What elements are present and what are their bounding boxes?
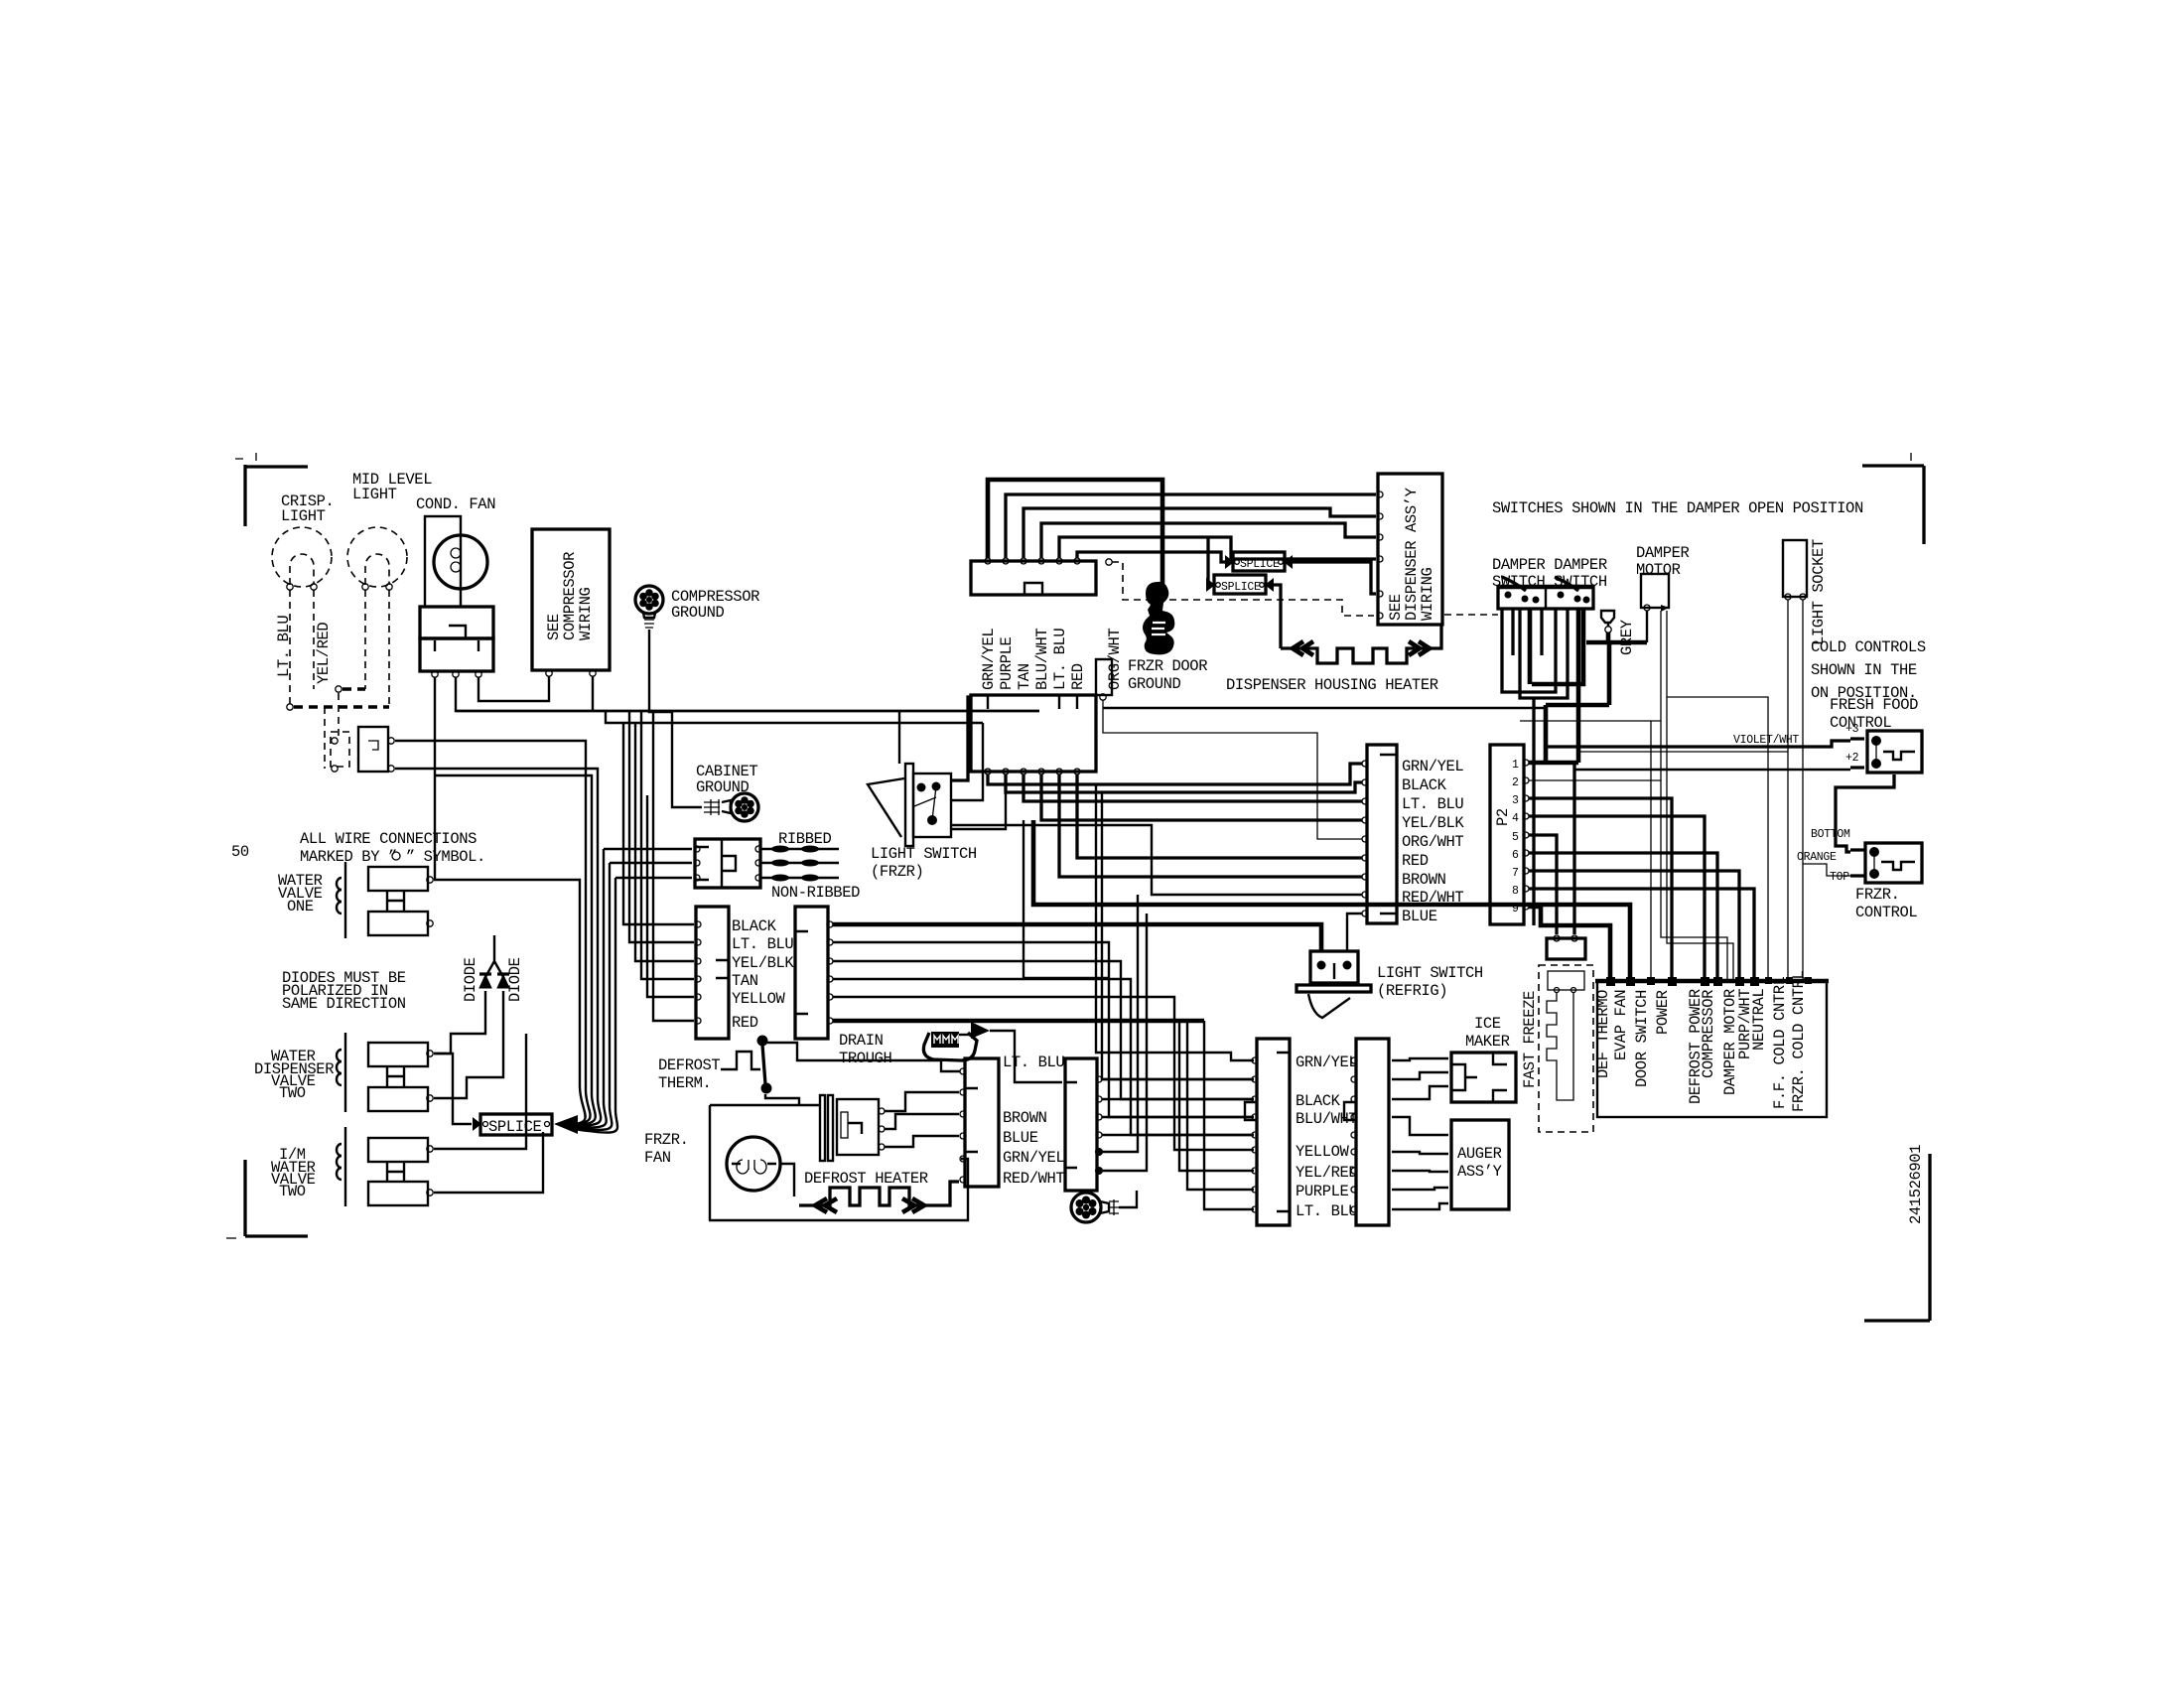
connector ribbed/non-ribbed [695, 839, 760, 888]
svg-text:SPLICE: SPLICE [1240, 558, 1280, 571]
svg-text:LT. BLU: LT. BLU [1296, 1202, 1357, 1220]
svg-text:GRN/YEL: GRN/YEL [1003, 1149, 1064, 1167]
svg-text:THERM.: THERM. [658, 1074, 711, 1092]
wire yel/blk to C [1041, 774, 1362, 820]
svg-text:FAN: FAN [644, 1149, 671, 1167]
wire evap fan long [1033, 820, 1630, 978]
svg-text:DAMPER: DAMPER [1636, 544, 1690, 562]
svg-text:SHOWN IN THE: SHOWN IN THE [1811, 661, 1917, 679]
terminal board [1597, 981, 1827, 1117]
svg-text:(REFRIG): (REFRIG) [1377, 982, 1447, 1000]
svg-text:LT. BLU: LT. BLU [1003, 1054, 1064, 1071]
wire switch frzr upper contact right [951, 697, 970, 780]
ice maker box [1451, 1053, 1516, 1102]
door connector lower [971, 695, 1096, 772]
auger assy box [1451, 1120, 1509, 1209]
svg-text:RED: RED [1402, 852, 1429, 870]
light switch refrig symbol [1310, 951, 1358, 983]
svg-text:GROUND: GROUND [671, 604, 725, 622]
dashed door outline [1112, 562, 1498, 616]
wire drop to D purple [1187, 1021, 1254, 1190]
wire mid lamp left [364, 590, 366, 689]
svg-text:LT. BLU: LT. BLU [275, 616, 293, 677]
wire to ff control +2 [1574, 769, 1850, 771]
svg-text:RED: RED [1069, 663, 1087, 690]
svg-text:1: 1 [1512, 759, 1519, 772]
svg-text:SWITCHES SHOWN IN THE DAMPER O: SWITCHES SHOWN IN THE DAMPER OPEN POSITI… [1492, 499, 1863, 517]
svg-text:DAMPER DAMPER: DAMPER DAMPER [1492, 556, 1607, 574]
svg-text:YEL/BLK: YEL/BLK [732, 954, 794, 972]
svg-text:WIRING: WIRING [577, 587, 595, 640]
wire neutral thin [1667, 697, 1768, 981]
connector C body [1367, 745, 1397, 923]
lamp crisp light [272, 527, 332, 587]
svg-text:9: 9 [1512, 903, 1519, 915]
wire thin long to damper pair [1650, 721, 1652, 978]
svg-text:TROUGH: TROUGH [839, 1050, 892, 1067]
svg-text:241526901: 241526901 [1907, 1145, 1925, 1224]
svg-text:COND. FAN: COND. FAN [416, 495, 495, 513]
wire mid lamp right [388, 590, 390, 707]
svg-text:LIGHT SOCKET: LIGHT SOCKET [1810, 539, 1828, 645]
svg-text:DISPENSER HOUSING HEATER: DISPENSER HOUSING HEATER [1226, 676, 1438, 694]
wire compressor T2 [592, 676, 594, 711]
svg-text:50: 50 [231, 843, 249, 861]
connector column right [795, 907, 828, 1039]
fast freeze connector box [1547, 938, 1585, 959]
svg-text:FRESH FOOD: FRESH FOOD [1830, 696, 1918, 714]
wire drop to D pin2 [1102, 792, 1254, 1079]
wire damper motor thin pair [1661, 611, 1733, 981]
wire p9 [1529, 907, 1610, 981]
svg-text:SPLICE: SPLICE [488, 1118, 542, 1136]
wire orange [1803, 864, 1850, 876]
svg-text:DEFROST HEATER: DEFROST HEATER [804, 1170, 928, 1188]
wire drop long left [1024, 820, 1109, 978]
svg-text:YEL/BLK: YEL/BLK [1402, 814, 1464, 832]
svg-text:VIOLET/WHT: VIOLET/WHT [1733, 734, 1799, 747]
SECTION: corners [226, 453, 1930, 1321]
svg-text:2: 2 [1512, 776, 1519, 789]
fast freeze dashed outline [1539, 965, 1593, 1132]
wire door grn/yel up-over to ground [988, 480, 1162, 588]
damper motor box [1641, 574, 1669, 608]
wire bundle verticals [434, 880, 580, 1086]
wire red/wht to C [951, 825, 1362, 895]
wire p5 [1529, 835, 1557, 934]
wire i/m valve top to splice area [434, 1034, 526, 1149]
splice lower [1206, 537, 1209, 585]
wire drop to D lt.blu [1204, 1021, 1254, 1209]
wires ribbed with beads [761, 849, 839, 878]
frzr fan loop [710, 1105, 820, 1220]
box see dispenser ass'y wiring [1378, 474, 1442, 625]
svg-text:DEF THERMO: DEF THERMO [1594, 990, 1612, 1078]
svg-text:LT. BLU: LT. BLU [732, 935, 793, 953]
ground lug bottom [1071, 1193, 1101, 1222]
wire switch frzr top feed [456, 711, 1039, 764]
SECTION: topleft [272, 471, 1039, 880]
wire relay T1 to valve one [434, 677, 436, 880]
svg-text:CONTROL: CONTROL [1830, 714, 1891, 732]
svg-text:ONE: ONE [287, 898, 314, 915]
svg-text:PURPLE: PURPLE [1296, 1183, 1349, 1200]
svg-text:RED: RED [732, 1014, 758, 1032]
svg-text:F.F. COLD CNTRL: F.F. COLD CNTRL [1771, 976, 1789, 1109]
box see compressor wiring [532, 529, 610, 670]
svg-text:GROUND: GROUND [1128, 675, 1181, 693]
svg-text:BLACK: BLACK [1296, 1092, 1341, 1110]
svg-text:LIGHT: LIGHT [281, 507, 326, 525]
svg-text:POWER: POWER [1654, 990, 1672, 1035]
wire light socket right down [1803, 600, 1808, 981]
wires into ribbed connector [604, 849, 692, 878]
wire org/wht mid segment [606, 711, 983, 723]
fresh food control [1867, 731, 1922, 773]
wire heater bottom [709, 1159, 968, 1220]
corner mark bottom-right [1864, 1154, 1930, 1321]
wire blue to C [1347, 914, 1362, 951]
relay cond fan [420, 607, 493, 638]
P2 connector [1490, 745, 1524, 924]
wire org/wht thin to C [1103, 700, 1362, 839]
svg-text:YEL/RED: YEL/RED [315, 623, 333, 684]
svg-text:BLU/WHT: BLU/WHT [1033, 629, 1051, 690]
svg-text:ICE: ICE [1474, 1015, 1501, 1033]
svg-text:4: 4 [1512, 812, 1519, 825]
svg-text:GRN/YEL: GRN/YEL [980, 629, 998, 690]
svg-text:GREY: GREY [1618, 619, 1636, 655]
svg-text:LT. BLU: LT. BLU [1402, 795, 1463, 813]
wire lt.blu bus dashed [287, 704, 293, 710]
svg-text:YELLOW: YELLOW [732, 990, 786, 1008]
svg-text:FAST FREEZE: FAST FREEZE [1521, 991, 1539, 1088]
svg-text:3: 3 [1512, 794, 1519, 807]
svg-text:TWO: TWO [279, 1084, 306, 1102]
drain trough [923, 1033, 977, 1060]
svg-text:DIODE: DIODE [462, 957, 479, 1002]
svg-text:NEUTRAL: NEUTRAL [1750, 989, 1768, 1051]
wire lt.blu to C [1024, 774, 1362, 801]
frzr fan motor [727, 1137, 780, 1191]
light socket box [1783, 540, 1807, 597]
wires to auger [1392, 1117, 1448, 1209]
svg-text:TAN: TAN [1016, 663, 1033, 690]
svg-text:FRZR. COLD CNTRL: FRZR. COLD CNTRL [1790, 970, 1808, 1112]
svg-text:COLD CONTROLS: COLD CONTROLS [1811, 638, 1926, 656]
svg-text:BLACK: BLACK [1402, 776, 1447, 794]
lamp mid level light [347, 527, 407, 587]
svg-text:GRN/YEL: GRN/YEL [1402, 758, 1463, 775]
wire splice left to dispenser valve [434, 1054, 472, 1124]
wire right box feeds [833, 924, 1321, 951]
SECTION: rightside [1490, 499, 1926, 1132]
connector B right box [1065, 1058, 1097, 1191]
svg-text:GROUND: GROUND [696, 778, 750, 796]
wire yel/red dashed crisp right [313, 590, 315, 689]
wire i/m valve bottom [434, 1132, 543, 1193]
wires to ice maker [1392, 1058, 1448, 1099]
wires into left connector pair [623, 711, 694, 1021]
wire black to C [1006, 774, 1362, 792]
svg-text:DEFROST: DEFROST [658, 1056, 720, 1074]
light switch upper (lamps) [331, 732, 349, 767]
svg-text:6: 6 [1512, 849, 1519, 862]
svg-text:7: 7 [1512, 867, 1519, 880]
svg-text:RED/WHT: RED/WHT [1402, 889, 1463, 907]
svg-text:LIGHT: LIGHT [352, 486, 397, 503]
svg-text:YEL/RED: YEL/RED [1296, 1164, 1357, 1182]
svg-text:MAKER: MAKER [1465, 1033, 1510, 1051]
svg-text:SAME DIRECTION: SAME DIRECTION [282, 995, 406, 1013]
wire brown to C [1059, 774, 1362, 877]
svg-text:BLUE: BLUE [1003, 1129, 1038, 1147]
svg-text:RED/WHT: RED/WHT [1003, 1170, 1064, 1188]
svg-text:EVAP FAN: EVAP FAN [1612, 990, 1630, 1060]
i/m water valve two [344, 1127, 346, 1206]
svg-text:BROWN: BROWN [1402, 871, 1446, 889]
corner mark bottom-left [245, 1160, 308, 1236]
svg-text:FRZR.: FRZR. [1855, 886, 1900, 904]
SECTION: bottomcenter [644, 895, 1516, 1225]
svg-text:BOTTOM: BOTTOM [1811, 828, 1850, 841]
compressor ground lug [635, 586, 663, 614]
svg-text:ASS’Y: ASS’Y [1457, 1163, 1503, 1181]
wire p2 [1529, 779, 1661, 781]
wire bundle fan into splice [574, 1086, 617, 1133]
wire relay T2 long right [456, 677, 1039, 711]
wire grn/yel to C [988, 764, 1362, 784]
damper switch assembly [1498, 585, 1593, 590]
splice upper [1233, 552, 1285, 571]
diode pair [485, 935, 503, 977]
connector E left box [965, 1058, 999, 1187]
wire red to C [1077, 774, 1362, 858]
svg-text:LT. BLU: LT. BLU [1051, 629, 1069, 690]
corner mark top-left [245, 465, 308, 526]
wire ff control to frzr control [1836, 774, 1894, 852]
corner mark top-right [1862, 466, 1924, 544]
wire p1 [1529, 761, 1578, 766]
wire p7 [1529, 871, 1739, 981]
svg-text:WIRING: WIRING [1419, 567, 1436, 621]
svg-text:DRAIN: DRAIN [839, 1032, 884, 1050]
SECTION: valves [254, 741, 617, 1206]
wire violet/wht [1546, 741, 1850, 747]
fast freeze switch inner [1548, 971, 1584, 990]
water valve one [344, 862, 346, 938]
dispenser housing heater element [1281, 625, 1441, 663]
svg-text:+2: +2 [1845, 752, 1859, 765]
cabinet ground lug [704, 799, 720, 815]
svg-text:LIGHT SWITCH: LIGHT SWITCH [1377, 964, 1483, 982]
SECTION: centermesh [456, 697, 1651, 1209]
frzr control [1865, 843, 1922, 883]
svg-text:NON-RIBBED: NON-RIBBED [771, 884, 860, 902]
svg-text:DOOR SWITCH: DOOR SWITCH [1633, 990, 1651, 1087]
grey plug [1601, 611, 1614, 627]
water dispenser valve two [344, 1033, 346, 1112]
svg-text:MOTOR: MOTOR [1636, 561, 1681, 579]
svg-text:ORANGE: ORANGE [1797, 851, 1837, 864]
svg-text:FRZR.: FRZR. [644, 1131, 689, 1149]
wire yel/red bus dashed [336, 686, 341, 692]
svg-text:P2: P2 [1494, 808, 1512, 826]
wire drop to D grn/yel [1096, 784, 1254, 1060]
svg-text:8: 8 [1512, 885, 1519, 898]
wire grey bus [1646, 611, 1648, 642]
defrost heater element [799, 1182, 959, 1205]
connector D body [1257, 1039, 1290, 1225]
defrost timer cylinder [820, 1095, 825, 1161]
wire relay T3 to compressor [478, 676, 549, 701]
wire p4 [1529, 816, 1705, 981]
SECTION: centertop [604, 474, 1498, 1039]
svg-text:PURPLE: PURPLE [998, 636, 1016, 690]
svg-text:AUGER: AUGER [1457, 1145, 1502, 1163]
svg-text:RIBBED: RIBBED [778, 830, 832, 848]
svg-text:DIODE: DIODE [506, 957, 524, 1002]
damper switch loops below [1502, 609, 1556, 692]
door connector upper [971, 561, 1096, 595]
connector column left [696, 907, 729, 1039]
wire light socket left down [1788, 600, 1789, 981]
wire drop to D yel/red [1179, 1021, 1254, 1171]
svg-text:COMPRESSOR: COMPRESSOR [1700, 990, 1717, 1078]
wires door connector to dispenser box [1006, 494, 1376, 558]
wires B to D [1102, 1079, 1254, 1135]
light switch frzr symbol [868, 778, 904, 837]
wire long org/wht right segment [1103, 707, 1545, 709]
svg-text:SPLICE: SPLICE [1221, 581, 1261, 594]
splice box [480, 1114, 552, 1135]
wire p6 [1529, 853, 1717, 981]
svg-text:ORG/WHT: ORG/WHT [1402, 833, 1463, 851]
wire p8 [1529, 889, 1754, 981]
svg-text:BLUE: BLUE [1402, 908, 1437, 925]
svg-text:+3: +3 [1845, 723, 1859, 736]
svg-text:GRN/YEL: GRN/YEL [1296, 1054, 1357, 1071]
svg-text:BROWN: BROWN [1003, 1109, 1047, 1127]
svg-text:LIGHT SWITCH: LIGHT SWITCH [871, 845, 977, 863]
svg-text:BLACK: BLACK [732, 917, 777, 935]
defrost thermostat [721, 1052, 760, 1069]
wire lt.blu dashed crisp left [289, 590, 291, 707]
svg-text:FRZR DOOR: FRZR DOOR [1128, 657, 1207, 675]
svg-text:(FRZR): (FRZR) [871, 863, 923, 881]
svg-text:5: 5 [1512, 831, 1519, 844]
connector F for ice maker [1356, 1039, 1389, 1225]
svg-text:CONTROL: CONTROL [1855, 904, 1917, 921]
svg-text:YELLOW: YELLOW [1296, 1143, 1350, 1161]
svg-text:TWO: TWO [279, 1183, 306, 1200]
wires timer to connector [885, 1092, 959, 1111]
svg-text:TOP: TOP [1830, 871, 1849, 884]
svg-text:ALL WIRE CONNECTIONS: ALL WIRE CONNECTIONS [300, 830, 477, 848]
frzr door ground clamp [1143, 582, 1174, 654]
wire p3 [1529, 798, 1672, 981]
wire damper drop [1532, 698, 1535, 925]
svg-text:TAN: TAN [732, 972, 758, 990]
cond fan motor [425, 516, 461, 607]
